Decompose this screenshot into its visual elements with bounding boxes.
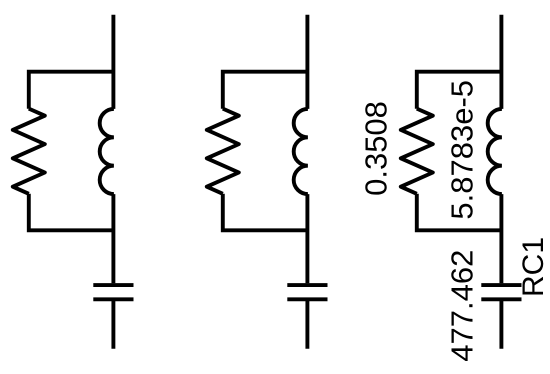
wire: top rail + resistor top lead, cell 2 — [223, 72, 308, 109]
wire: bottom rail + resistor bottom lead, cell 1 — [29, 194, 114, 231]
resistor R1 (cell 3) — [401, 109, 433, 194]
wire: top rail + resistor top lead, cell 1 — [29, 72, 114, 109]
wire: inductor to capacitor, cell 2 — [305, 194, 309, 283]
wire: top lead of cell 3 — [499, 15, 503, 109]
wire: inductor to capacitor, cell 1 — [111, 194, 115, 283]
wire: top lead of cell 2 — [305, 15, 309, 109]
capacitor C1 bottom plate (cell 3) — [481, 297, 521, 301]
svg-text:RC1: RC1 — [517, 237, 550, 297]
capacitor C bottom plate (cell 2) — [287, 297, 327, 301]
resistor R (cell 1) — [13, 109, 45, 194]
wire: bottom lead of cell 3 — [499, 301, 503, 349]
capacitor C top plate (cell 2) — [287, 283, 327, 287]
capacitor C bottom plate (cell 1) — [93, 297, 133, 301]
svg-text:5.8783e-5: 5.8783e-5 — [444, 80, 479, 220]
wire: top lead of cell 1 — [111, 15, 115, 109]
wire: bottom rail + resistor bottom lead, cell 3 — [417, 194, 502, 231]
inductor L (cell 1) — [100, 109, 114, 194]
inductor L (cell 2) — [294, 109, 308, 194]
inductor L1 (cell 3) — [488, 109, 502, 194]
capacitor C1 top plate (cell 3) — [481, 283, 521, 287]
wire: bottom lead of cell 1 — [111, 301, 115, 349]
wire: top rail + resistor top lead, cell 3 — [417, 72, 502, 109]
wire: inductor to capacitor, cell 3 — [499, 194, 503, 283]
resistor R (cell 2) — [207, 109, 239, 194]
capacitor C top plate (cell 1) — [93, 283, 133, 287]
wire: bottom rail + resistor bottom lead, cell 2 — [223, 194, 308, 231]
wire: bottom lead of cell 2 — [305, 301, 309, 349]
svg-text:477.462: 477.462 — [445, 250, 480, 362]
svg-text:0.3508: 0.3508 — [359, 101, 394, 196]
